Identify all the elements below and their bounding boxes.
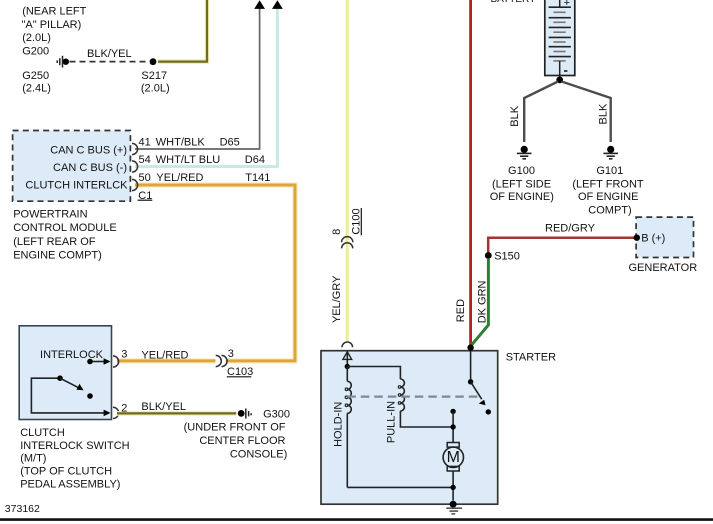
- svg-text:(LEFT REAR OF: (LEFT REAR OF: [13, 236, 96, 248]
- svg-text:PULL-IN: PULL-IN: [386, 401, 398, 443]
- svg-text:41: 41: [139, 137, 151, 149]
- svg-text:(2.0L): (2.0L): [22, 32, 51, 44]
- svg-text:(NEAR LEFT: (NEAR LEFT: [22, 5, 86, 17]
- svg-text:C100: C100: [351, 208, 363, 234]
- svg-text:CLUTCH INTERLCK: CLUTCH INTERLCK: [25, 180, 128, 192]
- svg-text:G101: G101: [596, 165, 623, 177]
- svg-text:GENERATOR: GENERATOR: [629, 262, 698, 274]
- svg-text:(M/T): (M/T): [20, 452, 46, 464]
- svg-text:G100: G100: [508, 165, 535, 177]
- svg-text:(LEFT SIDE: (LEFT SIDE: [492, 179, 551, 191]
- svg-text:G200: G200: [22, 46, 49, 58]
- svg-text:YEL/RED: YEL/RED: [141, 350, 188, 362]
- svg-text:(2.0L): (2.0L): [141, 83, 170, 95]
- svg-text:COMPT): COMPT): [588, 204, 631, 216]
- svg-text:WHT/BLK: WHT/BLK: [156, 137, 206, 149]
- svg-text:BLK: BLK: [598, 103, 610, 124]
- svg-text:INTERLOCK SWITCH: INTERLOCK SWITCH: [20, 440, 129, 452]
- svg-text:2: 2: [121, 403, 127, 415]
- svg-text:8: 8: [331, 229, 343, 235]
- svg-text:S150: S150: [494, 251, 520, 263]
- svg-text:(2.4L): (2.4L): [22, 83, 51, 95]
- svg-text:(TOP OF CLUTCH: (TOP OF CLUTCH: [20, 465, 112, 477]
- svg-text:CAN C BUS (-): CAN C BUS (-): [53, 162, 127, 174]
- svg-text:YEL/RED: YEL/RED: [156, 172, 203, 184]
- svg-text:BLK/YEL: BLK/YEL: [141, 401, 186, 413]
- svg-text:3: 3: [121, 349, 127, 361]
- svg-text:BLK: BLK: [509, 105, 521, 126]
- svg-text:YEL/GRY: YEL/GRY: [331, 275, 343, 323]
- svg-text:HOLD-IN: HOLD-IN: [332, 402, 344, 447]
- svg-text:PEDAL ASSEMBLY): PEDAL ASSEMBLY): [20, 478, 120, 490]
- svg-text:RED/GRY: RED/GRY: [545, 223, 596, 235]
- svg-text:OF ENGINE): OF ENGINE): [490, 191, 554, 203]
- svg-text:(UNDER FRONT OF: (UNDER FRONT OF: [184, 422, 286, 434]
- svg-text:C1: C1: [138, 190, 152, 202]
- svg-text:POWERTRAIN: POWERTRAIN: [13, 208, 87, 220]
- svg-text:3: 3: [228, 348, 234, 360]
- svg-text:WHT/LT BLU: WHT/LT BLU: [156, 154, 220, 166]
- svg-text:CLUTCH: CLUTCH: [20, 427, 65, 439]
- svg-text:DK GRN: DK GRN: [476, 280, 488, 323]
- svg-text:BLK/YEL: BLK/YEL: [87, 48, 132, 60]
- svg-text:G250: G250: [22, 70, 49, 82]
- svg-text:C103: C103: [227, 366, 253, 378]
- svg-text:T141: T141: [245, 172, 270, 184]
- svg-text:CONTROL MODULE: CONTROL MODULE: [13, 222, 117, 234]
- svg-text:D65: D65: [220, 137, 240, 149]
- svg-text:S217: S217: [141, 70, 167, 82]
- svg-text:50: 50: [139, 172, 151, 184]
- svg-text:INTERLOCK: INTERLOCK: [40, 349, 104, 361]
- svg-text:+: +: [564, 0, 570, 9]
- svg-text:CONSOLE): CONSOLE): [230, 449, 287, 461]
- svg-text:STARTER: STARTER: [506, 351, 556, 363]
- svg-text:373162: 373162: [5, 503, 40, 515]
- svg-text:OF ENGINE: OF ENGINE: [578, 191, 639, 203]
- svg-text:M: M: [447, 449, 460, 466]
- svg-text:54: 54: [139, 154, 151, 166]
- svg-text:CAN C BUS (+): CAN C BUS (+): [50, 145, 127, 157]
- svg-text:"A" PILLAR): "A" PILLAR): [22, 19, 82, 31]
- svg-text:CENTER FLOOR: CENTER FLOOR: [199, 435, 285, 447]
- svg-text:BATTERY: BATTERY: [491, 0, 537, 5]
- svg-text:D64: D64: [245, 154, 265, 166]
- svg-text:ENGINE COMPT): ENGINE COMPT): [13, 250, 102, 262]
- svg-text:G300: G300: [263, 409, 290, 421]
- svg-text:(LEFT FRONT: (LEFT FRONT: [572, 179, 644, 191]
- svg-text:RED: RED: [455, 299, 467, 322]
- svg-text:B (+): B (+): [641, 233, 665, 245]
